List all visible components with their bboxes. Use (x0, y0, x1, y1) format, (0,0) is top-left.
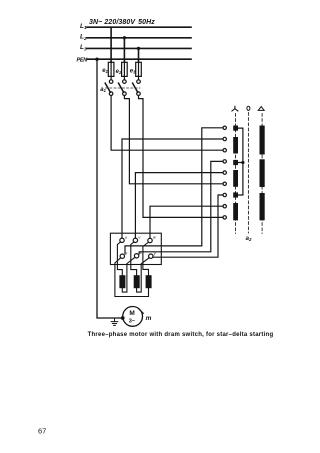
svg-text:a1: a1 (100, 87, 106, 93)
delta bar rows1-3 (260, 126, 265, 155)
motor M1 (123, 307, 143, 327)
contact 5 (V) (223, 171, 226, 174)
svg-text:m: m (146, 315, 152, 322)
svg-text:a2: a2 (246, 236, 252, 242)
node PEN junction (95, 58, 98, 61)
switch a1 coupling dashed link (106, 87, 141, 89)
motor pointer tick (139, 309, 144, 314)
switch a1 pole 2 (123, 80, 127, 84)
terminal Z (120, 254, 124, 258)
switch a1 pole 1 (109, 80, 113, 84)
svg-text:3~: 3~ (129, 319, 136, 325)
contact 1 (Z) (223, 126, 226, 129)
svg-text:e3: e3 (130, 68, 136, 74)
wire L2 drop to fuse e2 (123, 38, 125, 63)
ground (111, 318, 118, 325)
wire phase3 from a1 to contact row9 (139, 96, 224, 218)
winding V-Y (134, 275, 140, 288)
bus PEN (87, 58, 191, 60)
terminal U (120, 238, 124, 242)
winding lead X return (122, 257, 135, 292)
star bar rows8-9 (233, 203, 238, 220)
star contact square row4 (233, 160, 238, 165)
svg-text:Three–phase motor with dram sw: Three–phase motor with dram switch, for … (88, 332, 274, 338)
symbol delta (258, 107, 264, 111)
node L3 junction (137, 47, 140, 50)
winding lead Y return (137, 258, 150, 292)
star point bridge wire (238, 128, 243, 195)
terminal V (133, 238, 137, 242)
symbol 0 (247, 106, 250, 110)
contact 3 (L1) (223, 149, 226, 152)
wire fuse e2 to switch (123, 76, 125, 79)
svg-text:67: 67 (38, 427, 46, 436)
svg-text:e1: e1 (102, 68, 108, 74)
bus L1 (87, 26, 191, 28)
wire row7 to terminal Y (153, 195, 223, 257)
contact 7 (Y) (223, 193, 226, 196)
wire row5 to terminal V (135, 173, 223, 239)
switch a1 pole 3 (137, 80, 141, 84)
svg-text:PEN: PEN (77, 57, 89, 63)
terminal board of motor (110, 233, 161, 264)
fuse e2 (122, 62, 128, 76)
drum switch a2 position line 0 (247, 113, 249, 234)
wire row2 to terminal U (122, 139, 223, 238)
terminal X (134, 254, 138, 258)
terminal Y (149, 254, 153, 258)
drum switch a2 position line delta (261, 114, 263, 234)
drum switch a2 position line star (235, 114, 237, 234)
wire PEN down to motor (97, 59, 123, 318)
symbol star (232, 106, 238, 111)
wire fuse e1 to switch (110, 76, 112, 79)
winding W-Z (146, 275, 152, 288)
winding lead U (117, 242, 122, 276)
fuse e3 (136, 62, 142, 76)
node PE connection at motor frame (121, 316, 125, 320)
contact 4 (X) (223, 160, 226, 163)
wire row4 to terminal X (139, 161, 223, 253)
bus L2 (87, 37, 191, 39)
star bar rows2-3 (233, 137, 238, 154)
fuse e1 (108, 62, 114, 76)
node L2 junction (123, 36, 126, 39)
svg-text:3N~ 220/380V 50Hz: 3N~ 220/380V 50Hz (89, 19, 155, 26)
bus L3 (87, 47, 191, 49)
winding lead W (143, 242, 149, 276)
contact 2 (U) (223, 137, 226, 140)
wire L1 drop to fuse e1 (110, 27, 112, 62)
wire L3 drop to fuse e3 (138, 48, 140, 62)
delta bar rows4-6 (260, 159, 265, 187)
star contact square row7 (233, 192, 238, 197)
contact 6 (L2) (223, 182, 226, 185)
svg-text:e2: e2 (116, 69, 122, 75)
winding lead V (131, 242, 137, 276)
wire fuse e3 to switch (138, 76, 140, 79)
contact 8 (W) (223, 205, 226, 208)
contact 9 (L3) (223, 216, 226, 219)
wire row1 to terminal Z (125, 128, 223, 254)
wire phase2 from a1 to contact row6 (124, 96, 223, 184)
svg-text:z: z (124, 250, 127, 255)
delta bar rows7-9 (260, 193, 265, 220)
node star bridge junction (241, 161, 244, 164)
wire phase1 from a1 to contact row3 (111, 96, 223, 151)
star bar rows5-6 (233, 170, 238, 187)
wire row8 to terminal W (150, 206, 223, 238)
winding lead Z to outer loop (115, 258, 149, 297)
svg-text:M: M (129, 310, 134, 317)
terminal W (148, 238, 152, 242)
star contact square row1 (233, 126, 238, 131)
winding U-X (119, 275, 125, 288)
